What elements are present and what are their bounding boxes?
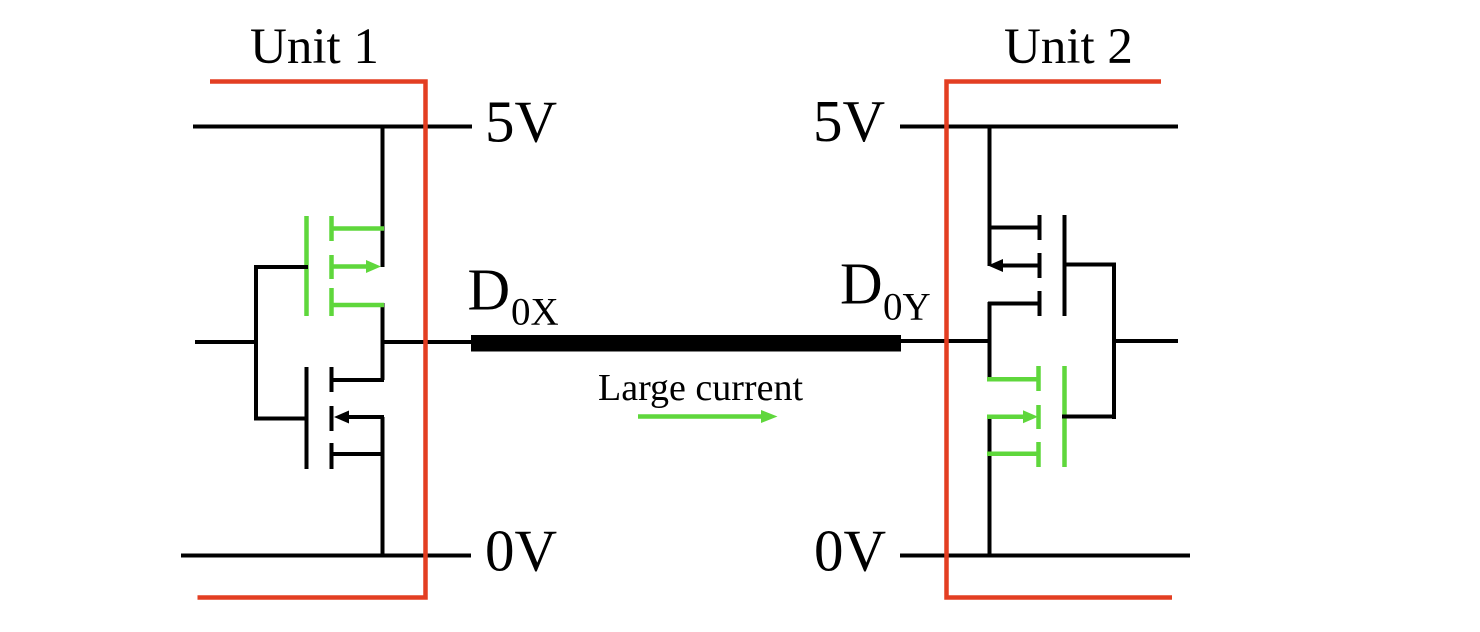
wire NMOS bulk+source to 0V (Unit 1) — [381, 417, 385, 556]
transistor Q1 PMOS (Unit 1, green highlighted) — [307, 216, 385, 316]
node 0V rail (Unit 1) — [181, 554, 471, 558]
wire gate bus vertical (Unit 2) — [1112, 263, 1116, 420]
wire 5V to PMOS source + bulk tie (Unit 1) — [381, 127, 385, 268]
svg-text:5V: 5V — [485, 89, 557, 155]
svg-text:5V: 5V — [813, 88, 885, 154]
svg-text:0V: 0V — [485, 518, 557, 584]
wire gate bus vertical (Unit 1) — [254, 265, 258, 421]
unit 1 boundary box (red) — [198, 82, 426, 598]
node 5V rail (Unit 1) — [193, 125, 472, 129]
wire PMOS gate lead (Unit 1) — [254, 265, 307, 269]
wire NMOS gate lead (Unit 2) — [1063, 415, 1116, 419]
current direction arrow (green) — [638, 414, 763, 419]
transistor Q3 PMOS (Unit 2, black, mirrored) — [988, 215, 1065, 316]
node 0V rail (Unit 2) — [900, 554, 1190, 558]
svg-text:0Y: 0Y — [883, 286, 931, 329]
wire input lead (Unit 1 gates, from left) — [195, 340, 258, 344]
wire output lead D0Y — [901, 339, 990, 343]
wire PMOS gate lead overlap (Unit 1) — [302, 265, 308, 269]
svg-text:D: D — [840, 251, 883, 317]
svg-text:Unit 2: Unit 2 — [1004, 19, 1133, 75]
PMOS bulk arrowhead (Unit 1, green) — [366, 260, 381, 273]
wire input lead (Unit 2 gates, from right) — [1114, 339, 1178, 343]
svg-text:0X: 0X — [511, 290, 559, 333]
transistor Q2 NMOS (Unit 1, black) — [307, 367, 385, 469]
svg-text:0V: 0V — [814, 518, 886, 584]
wire PMOS drain to output node to NMOS drain (Unit 2) — [988, 302, 992, 380]
wire PMOS gate lead (Unit 2) — [1063, 263, 1116, 267]
wire PMOS drain to output node to NMOS drain (Unit 1) — [381, 303, 385, 380]
svg-text:Unit 1: Unit 1 — [250, 19, 379, 75]
wire NMOS gate lead (Unit 1) — [254, 417, 308, 421]
NMOS bulk arrowhead (Unit 2, green) — [1023, 410, 1038, 423]
bus wire thick D0X-D0Y — [471, 335, 901, 352]
wire NMOS gate lead overlap (Unit 2) — [1062, 415, 1067, 419]
NMOS bulk arrowhead (Unit 1) — [334, 411, 349, 424]
wire 5V to PMOS source + bulk tie (Unit 2) — [988, 127, 992, 267]
svg-text:Large current: Large current — [598, 367, 803, 409]
wire output lead D0X — [382, 340, 473, 344]
wire NMOS bulk+source to 0V (Unit 2) — [988, 417, 992, 556]
svg-text:D: D — [468, 257, 511, 323]
PMOS bulk arrowhead (Unit 2) — [988, 259, 1003, 272]
node 5V rail (Unit 2) — [900, 125, 1178, 129]
unit 2 boundary box (red) — [947, 82, 1173, 598]
transistor Q4 NMOS (Unit 2, green highlighted) — [987, 366, 1065, 467]
